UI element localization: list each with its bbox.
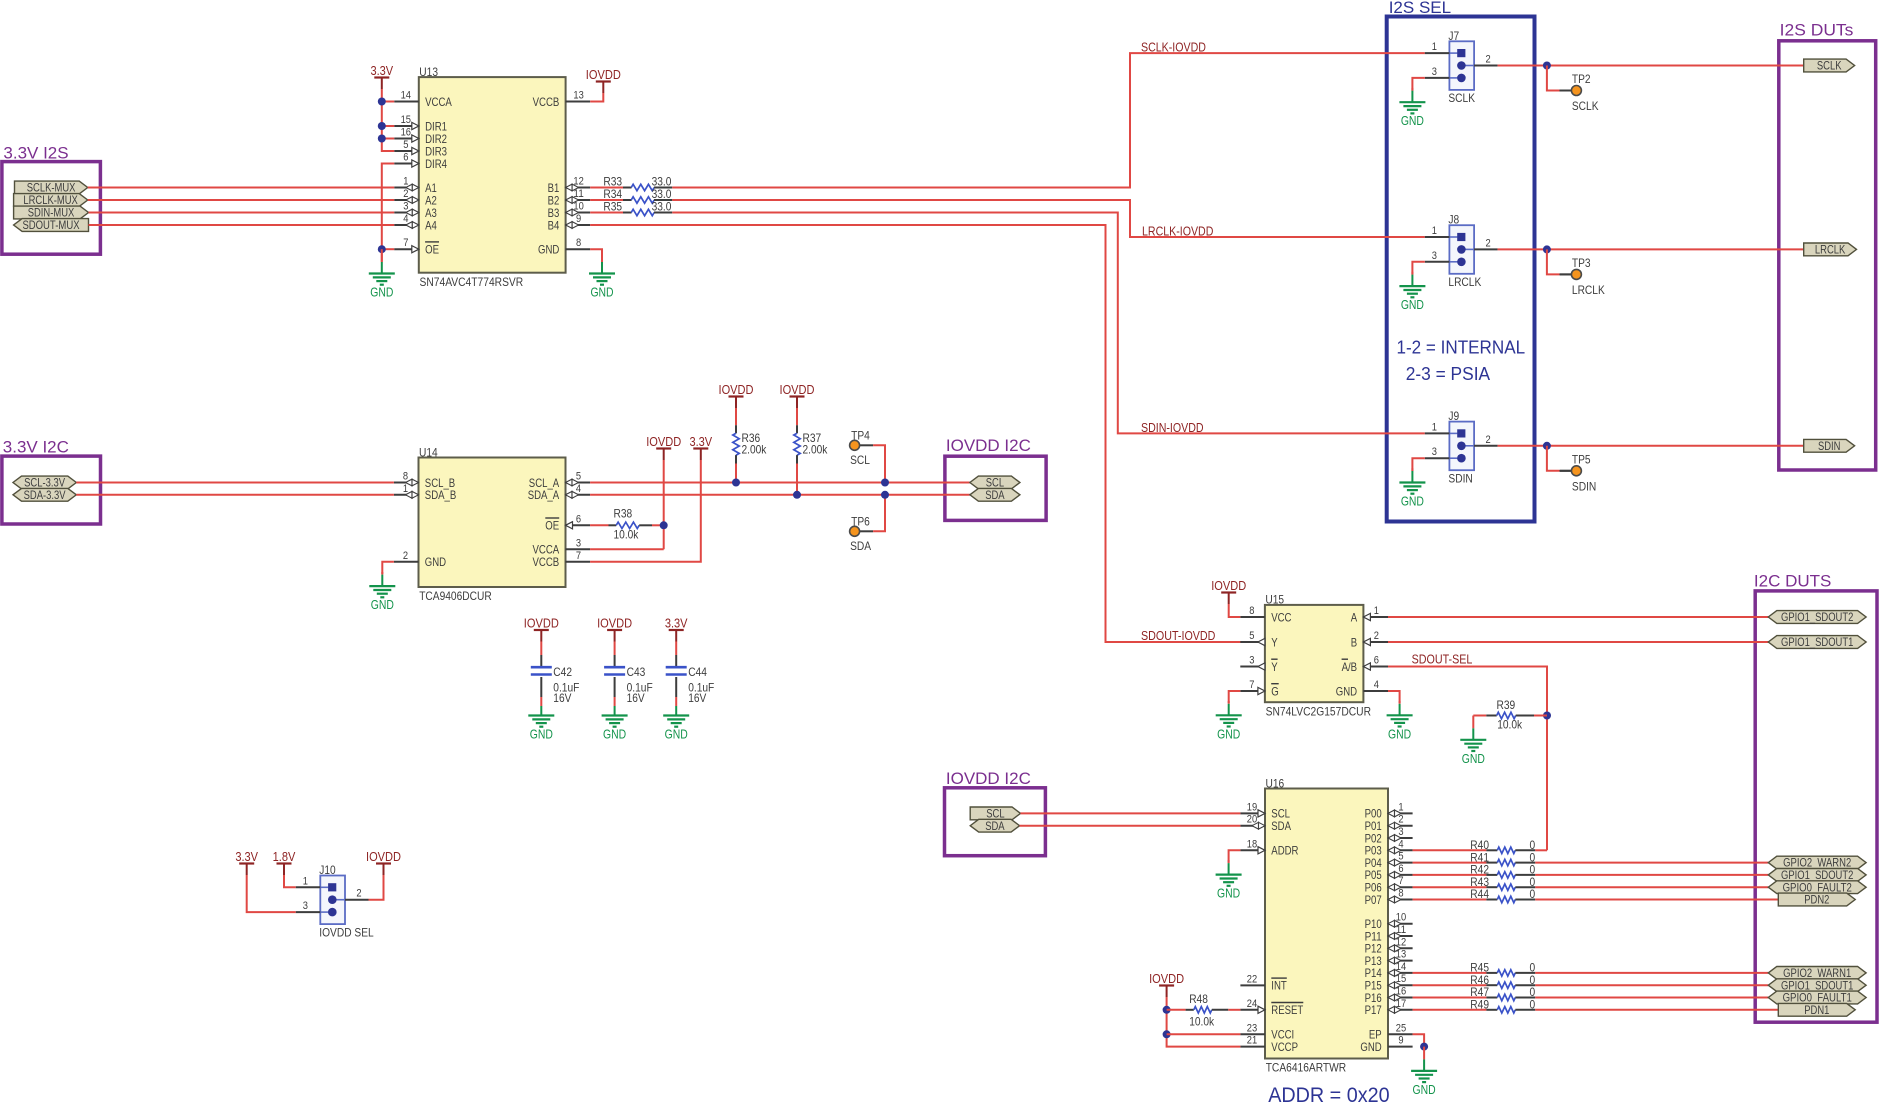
- svg-text:C42: C42: [553, 665, 572, 679]
- svg-text:U16: U16: [1266, 776, 1285, 790]
- svg-text:10.0k: 10.0k: [614, 527, 640, 541]
- svg-text:4: 4: [1398, 838, 1403, 850]
- svg-text:TP2: TP2: [1572, 72, 1591, 86]
- svg-text:R39: R39: [1497, 698, 1516, 712]
- svg-text:A/B: A/B: [1342, 660, 1358, 674]
- svg-text:16V: 16V: [688, 691, 706, 705]
- svg-text:R49: R49: [1470, 998, 1489, 1012]
- svg-text:SDA_A: SDA_A: [528, 488, 560, 502]
- svg-text:TP5: TP5: [1572, 453, 1591, 467]
- svg-text:G: G: [1271, 684, 1279, 698]
- svg-text:8: 8: [1398, 888, 1403, 900]
- svg-text:SDA: SDA: [850, 539, 871, 553]
- svg-text:9: 9: [1398, 1035, 1403, 1047]
- svg-text:P07: P07: [1365, 893, 1382, 907]
- svg-text:VCCB: VCCB: [533, 555, 560, 569]
- svg-text:LRCLK: LRCLK: [1572, 283, 1605, 297]
- svg-text:SDA: SDA: [985, 490, 1005, 502]
- svg-text:SCLK: SCLK: [1448, 91, 1475, 105]
- svg-text:18: 18: [1247, 838, 1257, 850]
- svg-text:SCLK-MUX: SCLK-MUX: [27, 183, 76, 195]
- svg-text:SDA_B: SDA_B: [425, 488, 457, 502]
- svg-text:1.8V: 1.8V: [273, 849, 296, 864]
- svg-text:TCA6416ARTWR: TCA6416ARTWR: [1266, 1061, 1347, 1075]
- svg-text:B4: B4: [548, 218, 560, 232]
- svg-text:3: 3: [303, 900, 308, 912]
- svg-text:7: 7: [576, 550, 581, 562]
- svg-text:SDOUT-IOVDD: SDOUT-IOVDD: [1141, 629, 1215, 643]
- svg-text:SDA-3.3V: SDA-3.3V: [24, 490, 66, 502]
- svg-text:21: 21: [1247, 1035, 1257, 1047]
- svg-text:R44: R44: [1470, 887, 1489, 901]
- svg-text:ADDR: ADDR: [1271, 844, 1298, 858]
- svg-text:16V: 16V: [627, 691, 645, 705]
- svg-text:SDIN-IOVDD: SDIN-IOVDD: [1141, 421, 1204, 435]
- svg-text:5: 5: [576, 471, 581, 483]
- svg-text:IOVDD: IOVDD: [524, 616, 559, 631]
- svg-text:2: 2: [1486, 434, 1491, 446]
- svg-text:SDIN: SDIN: [1818, 441, 1841, 453]
- svg-text:4: 4: [1374, 679, 1379, 691]
- svg-text:U14: U14: [419, 445, 438, 459]
- svg-text:16: 16: [401, 127, 411, 139]
- svg-text:2: 2: [1486, 237, 1491, 249]
- svg-text:SDOUT-MUX: SDOUT-MUX: [22, 220, 79, 232]
- svg-text:3: 3: [1432, 250, 1437, 262]
- svg-text:0: 0: [1530, 887, 1536, 901]
- svg-text:SCLK-IOVDD: SCLK-IOVDD: [1141, 41, 1206, 55]
- svg-text:Y: Y: [1271, 660, 1277, 674]
- svg-text:IOVDD: IOVDD: [1211, 578, 1246, 593]
- svg-text:LRCLK: LRCLK: [1815, 245, 1846, 257]
- svg-text:I2S DUTs: I2S DUTs: [1780, 20, 1854, 39]
- svg-text:GND: GND: [1217, 886, 1240, 901]
- svg-text:U15: U15: [1265, 593, 1284, 607]
- svg-text:DIR4: DIR4: [425, 157, 447, 171]
- svg-text:IOVDD SEL: IOVDD SEL: [319, 925, 374, 939]
- svg-text:VCC: VCC: [1271, 610, 1292, 624]
- svg-text:OE: OE: [545, 519, 559, 533]
- svg-text:5: 5: [403, 139, 408, 151]
- svg-text:R38: R38: [614, 507, 633, 521]
- svg-text:3.3V: 3.3V: [665, 616, 688, 631]
- svg-text:SDIN: SDIN: [1448, 471, 1472, 485]
- svg-text:6: 6: [1374, 655, 1379, 667]
- svg-text:2: 2: [403, 550, 408, 562]
- svg-text:3.3V: 3.3V: [370, 63, 393, 78]
- svg-text:RESET: RESET: [1271, 1003, 1304, 1017]
- svg-text:IOVDD I2C: IOVDD I2C: [946, 769, 1031, 788]
- svg-text:P17: P17: [1365, 1003, 1382, 1017]
- svg-text:A: A: [1351, 610, 1357, 624]
- svg-text:6: 6: [576, 513, 581, 525]
- svg-text:3: 3: [1398, 826, 1403, 838]
- svg-text:IOVDD: IOVDD: [586, 67, 621, 82]
- svg-text:SN74LVC2G157DCUR: SN74LVC2G157DCUR: [1266, 704, 1372, 718]
- svg-text:IOVDD: IOVDD: [646, 434, 681, 449]
- svg-text:3: 3: [576, 537, 581, 549]
- svg-text:1: 1: [303, 875, 308, 887]
- svg-text:2: 2: [1398, 814, 1403, 826]
- svg-text:3: 3: [1249, 655, 1254, 667]
- svg-text:U13: U13: [419, 65, 438, 79]
- svg-text:3: 3: [403, 201, 408, 213]
- svg-text:24: 24: [1247, 998, 1257, 1010]
- svg-text:GND: GND: [1388, 726, 1411, 741]
- svg-text:SDIN: SDIN: [1572, 479, 1596, 493]
- svg-text:SDA: SDA: [985, 821, 1005, 833]
- svg-text:2.00k: 2.00k: [742, 443, 768, 457]
- svg-text:3.3V I2S: 3.3V I2S: [3, 144, 68, 163]
- svg-text:VCCB: VCCB: [533, 95, 560, 109]
- svg-text:GPIO1_SDOUT2: GPIO1_SDOUT2: [1781, 612, 1853, 624]
- svg-text:IOVDD: IOVDD: [780, 382, 815, 397]
- svg-text:1: 1: [1432, 225, 1437, 237]
- svg-text:16V: 16V: [553, 691, 571, 705]
- svg-text:GND: GND: [538, 243, 560, 257]
- svg-text:GND: GND: [1336, 684, 1358, 698]
- svg-text:GND: GND: [1401, 494, 1424, 509]
- svg-text:LRCLK: LRCLK: [1448, 275, 1481, 289]
- svg-text:1-2 = INTERNAL: 1-2 = INTERNAL: [1397, 337, 1526, 358]
- svg-text:TP3: TP3: [1572, 256, 1591, 270]
- svg-text:10.0k: 10.0k: [1497, 718, 1523, 732]
- svg-text:9: 9: [576, 213, 581, 225]
- svg-text:GND: GND: [1401, 297, 1424, 312]
- svg-text:3.3V: 3.3V: [235, 849, 258, 864]
- svg-text:IOVDD: IOVDD: [597, 616, 632, 631]
- svg-text:GND: GND: [590, 285, 613, 300]
- svg-text:IOVDD: IOVDD: [719, 382, 754, 397]
- svg-text:5: 5: [1398, 851, 1403, 863]
- svg-text:I2S SEL: I2S SEL: [1389, 0, 1451, 17]
- svg-text:1: 1: [1374, 605, 1379, 617]
- svg-text:2-3 = PSIA: 2-3 = PSIA: [1406, 363, 1491, 384]
- svg-text:GND: GND: [665, 727, 688, 742]
- svg-text:PDN2: PDN2: [1804, 895, 1829, 907]
- svg-text:IOVDD: IOVDD: [1149, 971, 1184, 986]
- svg-text:10.0k: 10.0k: [1189, 1014, 1215, 1028]
- svg-text:I2C DUTS: I2C DUTS: [1754, 572, 1832, 591]
- svg-text:1: 1: [1432, 421, 1437, 433]
- svg-text:0: 0: [1530, 998, 1536, 1012]
- svg-text:6: 6: [403, 152, 408, 164]
- svg-text:SCLK: SCLK: [1817, 61, 1842, 73]
- svg-text:3: 3: [1432, 446, 1437, 458]
- svg-text:GND: GND: [371, 597, 394, 612]
- svg-text:SCLK: SCLK: [1572, 99, 1599, 113]
- svg-text:C43: C43: [627, 665, 646, 679]
- svg-text:VCCA: VCCA: [425, 95, 452, 109]
- svg-text:5: 5: [1249, 630, 1254, 642]
- svg-text:GND: GND: [1360, 1040, 1382, 1054]
- svg-text:2.00k: 2.00k: [803, 443, 829, 457]
- svg-text:J8: J8: [1448, 213, 1459, 227]
- svg-text:R35: R35: [603, 199, 622, 213]
- svg-text:Y: Y: [1271, 635, 1277, 649]
- svg-text:GND: GND: [425, 555, 447, 569]
- svg-text:6: 6: [1398, 863, 1403, 875]
- svg-text:ADDR = 0x20: ADDR = 0x20: [1268, 1084, 1389, 1103]
- svg-text:J10: J10: [319, 863, 336, 877]
- svg-text:4: 4: [576, 483, 581, 495]
- svg-text:23: 23: [1247, 1022, 1257, 1034]
- svg-text:R48: R48: [1189, 992, 1208, 1006]
- svg-text:2: 2: [1486, 54, 1491, 66]
- svg-text:IOVDD: IOVDD: [366, 849, 401, 864]
- svg-text:1: 1: [1398, 801, 1403, 813]
- svg-text:SDOUT-SEL: SDOUT-SEL: [1412, 653, 1473, 667]
- svg-text:A4: A4: [425, 218, 437, 232]
- svg-text:1: 1: [403, 176, 408, 188]
- svg-text:SDIN-MUX: SDIN-MUX: [28, 208, 75, 220]
- svg-text:14: 14: [401, 90, 411, 102]
- svg-text:2: 2: [403, 188, 408, 200]
- svg-text:8: 8: [1249, 605, 1254, 617]
- svg-text:GND: GND: [530, 727, 553, 742]
- svg-text:SN74AVC4T774RSVR: SN74AVC4T774RSVR: [420, 275, 524, 289]
- svg-text:13: 13: [573, 90, 583, 102]
- svg-text:LRCLK-MUX: LRCLK-MUX: [23, 195, 78, 207]
- svg-text:SDA: SDA: [1271, 819, 1291, 833]
- svg-text:7: 7: [1249, 679, 1254, 691]
- svg-text:1: 1: [1432, 41, 1437, 53]
- svg-text:J7: J7: [1448, 29, 1459, 43]
- svg-text:8: 8: [576, 237, 581, 249]
- svg-text:GND: GND: [1413, 1082, 1436, 1097]
- svg-text:GND: GND: [603, 727, 626, 742]
- svg-text:VCCP: VCCP: [1271, 1040, 1298, 1054]
- svg-text:IOVDD I2C: IOVDD I2C: [946, 436, 1031, 455]
- svg-text:LRCLK-IOVDD: LRCLK-IOVDD: [1142, 224, 1213, 238]
- svg-text:TCA9406DCUR: TCA9406DCUR: [419, 589, 492, 603]
- svg-text:GND: GND: [1462, 751, 1485, 766]
- svg-text:25: 25: [1396, 1022, 1406, 1034]
- svg-text:2: 2: [1374, 630, 1379, 642]
- svg-text:33.0: 33.0: [652, 199, 672, 213]
- svg-text:B: B: [1351, 635, 1357, 649]
- svg-text:7: 7: [1398, 875, 1403, 887]
- svg-text:1: 1: [403, 483, 408, 495]
- svg-text:GND: GND: [1401, 113, 1424, 128]
- svg-text:8: 8: [403, 471, 408, 483]
- svg-text:4: 4: [403, 213, 408, 225]
- svg-text:7: 7: [403, 237, 408, 249]
- svg-text:PDN1: PDN1: [1804, 1005, 1829, 1017]
- svg-text:22: 22: [1247, 973, 1257, 985]
- svg-text:15: 15: [401, 114, 411, 126]
- svg-text:3.3V I2C: 3.3V I2C: [3, 438, 69, 457]
- svg-text:3.3V: 3.3V: [689, 434, 712, 449]
- svg-text:3: 3: [1432, 66, 1437, 78]
- svg-text:INT: INT: [1271, 979, 1287, 993]
- svg-text:GND: GND: [1217, 726, 1240, 741]
- svg-text:OE: OE: [425, 243, 439, 257]
- svg-text:19: 19: [1247, 801, 1257, 813]
- svg-text:SCL: SCL: [850, 453, 870, 467]
- svg-text:GND: GND: [370, 285, 393, 300]
- svg-text:J9: J9: [1448, 409, 1459, 423]
- svg-text:GPIO1_SDOUT1: GPIO1_SDOUT1: [1781, 637, 1853, 649]
- svg-text:2: 2: [356, 888, 361, 900]
- svg-text:C44: C44: [688, 665, 707, 679]
